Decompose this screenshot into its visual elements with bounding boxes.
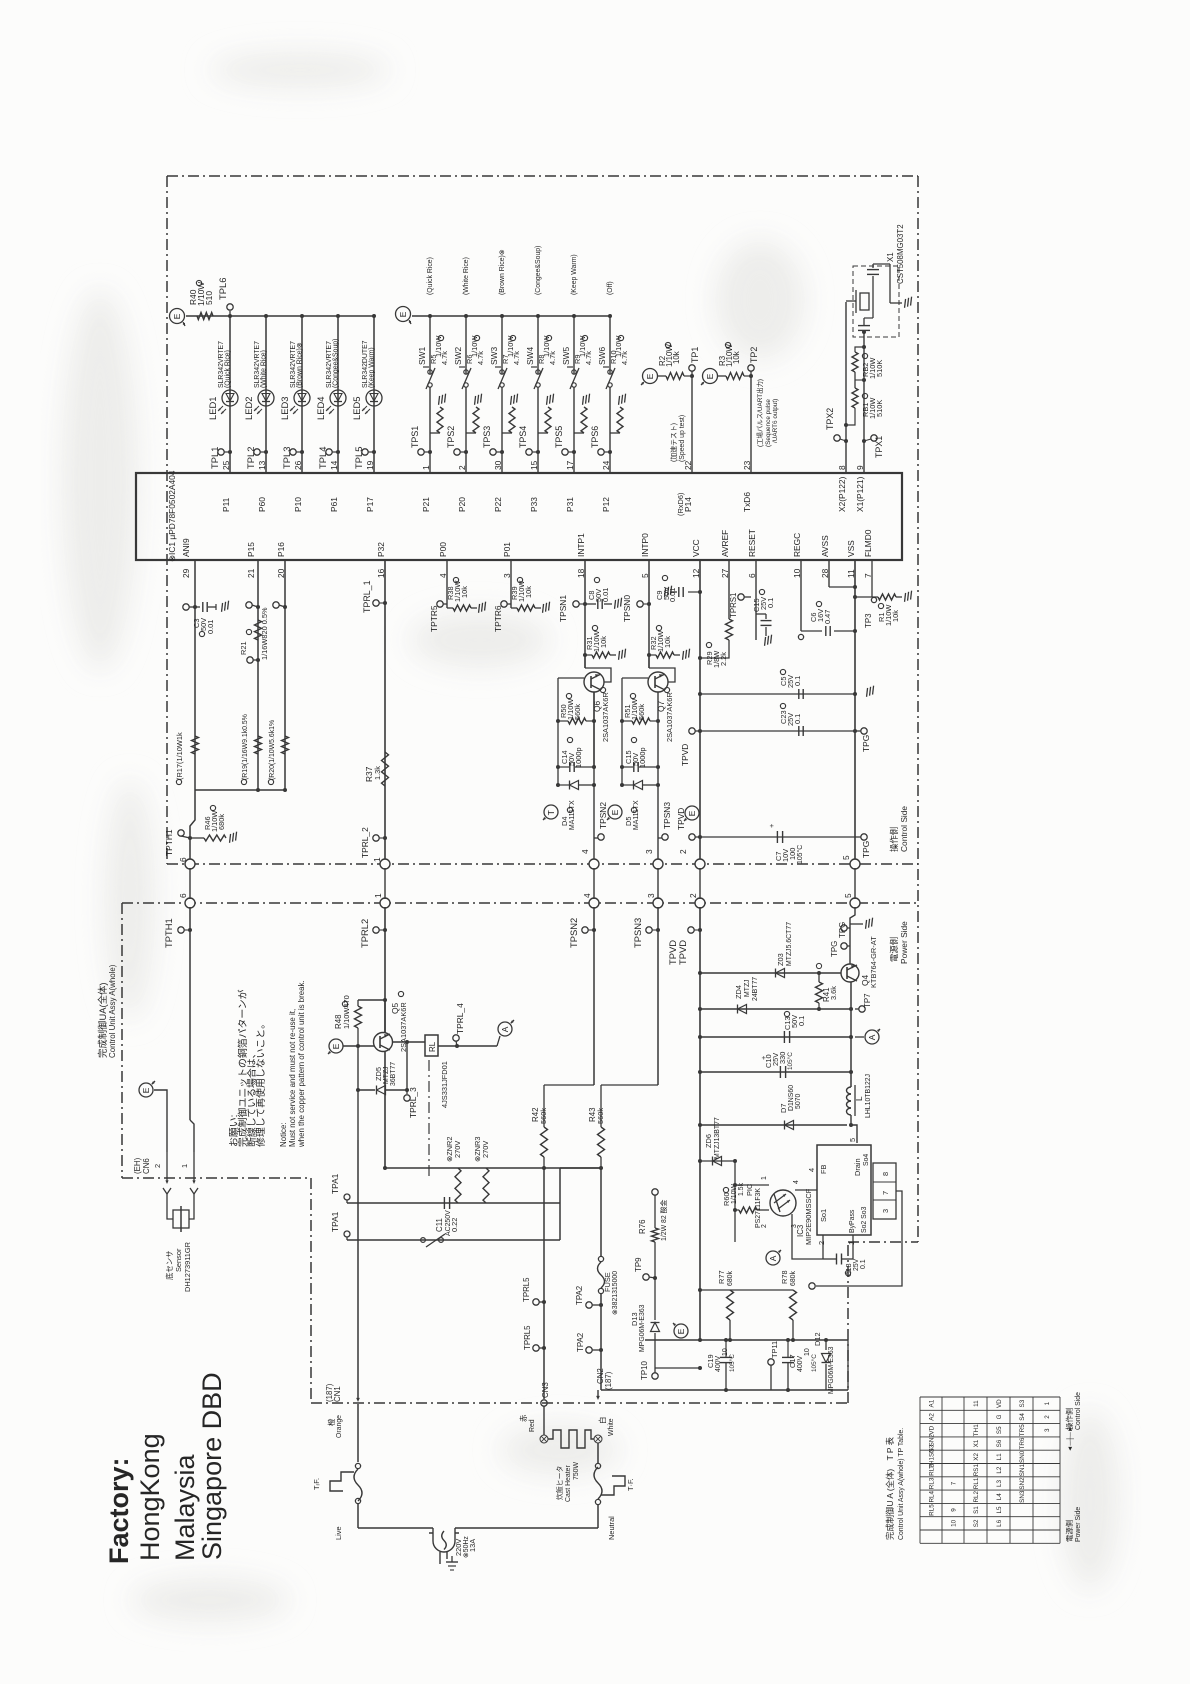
svg-text:TPS3: TPS3 — [482, 426, 492, 448]
svg-text:Neutral: Neutral — [607, 1516, 616, 1540]
wire: P16 column — [284, 560, 286, 790]
svg-text:R60: R60 — [722, 1192, 731, 1206]
svg-text:P61: P61 — [329, 497, 339, 512]
diode D4 MA111TX — [570, 781, 579, 790]
wire: sensor E wire — [154, 1090, 167, 1152]
svg-text:(R20(1/10W5.6k1%: (R20(1/10W5.6k1% — [269, 720, 276, 780]
svg-text:TP7: TP7 — [863, 994, 872, 1008]
wire: bottom mains wire — [358, 1527, 433, 1529]
table TP assignments — [920, 1396, 1060, 1398]
svg-text:P17: P17 — [365, 497, 375, 512]
resistor R37 1.3k — [382, 752, 389, 786]
switch SW2 — [464, 370, 468, 374]
svg-text:Drain: Drain — [853, 1158, 862, 1176]
heater cast heater 750W — [548, 1430, 594, 1448]
wire: LED1 column — [229, 316, 231, 473]
svg-text:S5: S5 — [996, 1426, 1003, 1434]
test point TPL1 — [218, 449, 224, 455]
svg-text:2SA1037AK6R: 2SA1037AK6R — [665, 692, 674, 742]
wire: interconnect 2 — [699, 868, 701, 899]
svg-text:680k: 680k — [727, 1271, 734, 1286]
node junction 5 on control frame — [850, 859, 860, 869]
node junction 1 on control frame — [380, 859, 390, 869]
svg-text:1: 1 — [761, 1176, 768, 1180]
svg-text:E: E — [141, 1087, 151, 1093]
svg-text:TPS6: TPS6 — [590, 426, 600, 448]
test point TPVD upper — [689, 728, 695, 734]
test point TPRL1 — [373, 600, 379, 606]
svg-text:560k: 560k — [539, 1108, 548, 1124]
capacitor C7 10V 100 105C rail — [700, 836, 855, 838]
svg-text:/UART6 output): /UART6 output) — [772, 399, 779, 443]
svg-text:2: 2 — [1044, 1415, 1051, 1419]
svg-text:Control Side: Control Side — [1075, 1392, 1082, 1430]
svg-text:T: T — [546, 810, 556, 815]
svg-text:(工場パルス/UART出力): (工場パルス/UART出力) — [755, 379, 764, 447]
test point TPSN2 power side — [593, 907, 595, 1085]
test point TPRL2 control side — [373, 835, 379, 841]
resistor R40 1/10W 510 — [197, 313, 213, 320]
svg-text:10k: 10k — [732, 351, 741, 364]
svg-text:24BT77: 24BT77 — [752, 977, 759, 1001]
svg-text:(Quick Rice): (Quick Rice) — [427, 257, 434, 295]
wire: left feed column lower — [699, 1339, 701, 1341]
svg-text:P12: P12 — [601, 497, 611, 512]
svg-text:TPRL5: TPRL5 — [522, 1277, 531, 1302]
node junction 4 on power frame — [589, 898, 599, 908]
svg-text:ANI9: ANI9 — [181, 538, 191, 557]
svg-text:9: 9 — [951, 1508, 958, 1512]
svg-text:3: 3 — [1044, 1428, 1051, 1432]
capacitor C18 25V 0.1 — [836, 1254, 838, 1265]
wire: LED2 column — [265, 316, 267, 473]
svg-text:R21: R21 — [239, 641, 248, 655]
svg-text:270V: 270V — [453, 1141, 462, 1158]
wire: LED3 column — [301, 316, 303, 473]
svg-text:2: 2 — [688, 893, 698, 898]
svg-text:C11: C11 — [435, 1218, 444, 1232]
svg-text:L4: L4 — [996, 1493, 1003, 1501]
svg-text:電源側: 電源側 — [889, 937, 899, 962]
svg-text:Power Side: Power Side — [1075, 1507, 1082, 1542]
svg-text:TPTH1: TPTH1 — [163, 918, 174, 948]
svg-text:TPA2: TPA2 — [576, 1333, 585, 1352]
svg-text:⊗IC1 μPD78F0502A404: ⊗IC1 μPD78F0502A404 — [167, 470, 177, 562]
wire: Q4 output column — [850, 982, 852, 1087]
wire: P15 column — [257, 560, 259, 790]
diode D7 D1NS60 — [785, 1121, 794, 1130]
svg-text:KTB764-GR-AT: KTB764-GR-AT — [869, 936, 878, 988]
test point TPTH1 control side — [178, 830, 184, 836]
wire: TPTR5 column — [446, 560, 448, 608]
wire: SW6 column — [609, 316, 611, 374]
node junction 2 on control frame — [695, 859, 705, 869]
svg-text:TPSN0: TPSN0 — [622, 595, 632, 622]
node junction 4 on control frame — [589, 859, 599, 869]
test point TP2 — [744, 375, 751, 377]
wire: vertical right power rail — [559, 1168, 561, 1240]
svg-text:D7: D7 — [779, 1104, 788, 1113]
svg-text:Power Side: Power Side — [899, 921, 909, 964]
node A: circled A at IC3 — [766, 1251, 780, 1265]
svg-text:S2: S2 — [973, 1519, 980, 1527]
svg-text:TP3: TP3 — [864, 613, 873, 628]
svg-text:RL4: RL4 — [929, 1490, 936, 1502]
svg-text:TPX1: TPX1 — [874, 436, 884, 458]
svg-text:0.1: 0.1 — [793, 676, 802, 686]
wire: X1 pin to crystal — [863, 332, 865, 473]
svg-text:MTZJ13BT77: MTZJ13BT77 — [714, 1117, 721, 1159]
svg-text:MIP2E90MSSCF: MIP2E90MSSCF — [804, 1188, 813, 1245]
capacitor C3 50V 0.01 with ground — [195, 606, 200, 608]
switch SW4 — [536, 370, 540, 374]
svg-text:Z03: Z03 — [776, 953, 785, 966]
node junction 6 on control frame — [185, 859, 195, 869]
svg-text:L6: L6 — [996, 1519, 1003, 1527]
diode D13 MPG06M-E363 — [654, 1278, 656, 1320]
wire: opto pin3 down — [792, 1214, 823, 1259]
test point TPRL4 — [438, 1045, 497, 1047]
svg-text:(Congee&Soup): (Congee&Soup) — [535, 246, 542, 295]
svg-text:Factory:: Factory: — [104, 1457, 134, 1564]
svg-text:A2: A2 — [929, 1413, 936, 1421]
svg-text:TP11: TP11 — [770, 1341, 779, 1358]
svg-text:3: 3 — [646, 893, 656, 898]
heater terminal right — [594, 1435, 602, 1443]
svg-text:0.1: 0.1 — [793, 714, 802, 724]
node E: circled E TPVD lower — [685, 806, 699, 820]
svg-text:P01: P01 — [502, 542, 512, 557]
svg-text:P31: P31 — [565, 497, 575, 512]
node E: circled E for R3 — [703, 369, 718, 384]
test point TP7 — [859, 1006, 865, 1012]
svg-text:MTZJ: MTZJ — [383, 1066, 390, 1084]
capacitor crystal load bottom — [858, 325, 870, 327]
svg-text:RL5: RL5 — [929, 1504, 936, 1516]
svg-text:when the copper pattern of con: when the copper pattern of control unit … — [297, 980, 306, 1148]
svg-text:電源側: 電源側 — [1065, 1520, 1074, 1542]
test point TPA1 lower — [344, 1231, 350, 1237]
svg-text:0.47: 0.47 — [823, 610, 832, 624]
wire: RESET column — [755, 560, 757, 640]
svg-text:SW1: SW1 — [417, 347, 427, 365]
svg-text:2SA1037AK6R: 2SA1037AK6R — [601, 692, 610, 742]
node junction 2 on power frame — [695, 898, 705, 908]
svg-text:3: 3 — [644, 849, 654, 854]
svg-text:VCC: VCC — [691, 539, 701, 557]
svg-text:FB: FB — [819, 1164, 828, 1174]
svg-text:1/2W 82 酸金: 1/2W 82 酸金 — [659, 1200, 668, 1241]
svg-text:PIC: PIC — [745, 1183, 754, 1196]
svg-text:4.7k: 4.7k — [584, 351, 593, 365]
resistor R1 1/10W 10k with ground and TP3 — [855, 596, 878, 598]
svg-text:(Sequence pulse: (Sequence pulse — [765, 399, 772, 447]
svg-text:E: E — [172, 313, 182, 319]
svg-text:220V: 220V — [454, 1539, 463, 1556]
svg-text:橙: 橙 — [327, 1418, 336, 1426]
svg-text:LED1: LED1 — [207, 397, 218, 420]
resistor R17 1/10W 1k — [192, 736, 199, 754]
resistor R8 1/10W 4.7k with ground — [538, 432, 548, 434]
wire: ZD6 row — [700, 1160, 735, 1162]
svg-text:R77: R77 — [717, 1270, 726, 1284]
test point TP10 — [652, 1373, 658, 1379]
svg-text:SN0: SN0 — [1019, 1450, 1026, 1463]
wire: INTP1 column — [584, 560, 586, 668]
svg-text:SW6: SW6 — [597, 347, 607, 365]
svg-text:MPG06M-E363: MPG06M-E363 — [639, 1304, 646, 1352]
svg-text:0.1: 0.1 — [766, 598, 775, 608]
svg-text:4.7k: 4.7k — [548, 351, 557, 365]
svg-text:680k: 680k — [790, 1271, 797, 1286]
wire: analog bottom rail — [195, 789, 285, 791]
wire: left branch continues down — [357, 1090, 359, 1140]
svg-text:MTZJ5.6CT77: MTZJ5.6CT77 — [786, 922, 793, 966]
svg-text:REGC: REGC — [792, 533, 802, 557]
svg-text:修理して再使用しないこと。: 修理して再使用しないこと。 — [254, 1019, 267, 1147]
svg-text:2: 2 — [153, 1164, 162, 1168]
svg-text:13A: 13A — [468, 1539, 477, 1552]
svg-text:TP9: TP9 — [634, 1257, 643, 1272]
node E: circled E at D5 — [608, 805, 622, 819]
svg-text:RESET: RESET — [747, 529, 757, 557]
svg-text:TR6: TR6 — [1019, 1437, 1026, 1449]
resistor R77 680k — [700, 1289, 730, 1291]
svg-text:7: 7 — [951, 1481, 958, 1485]
wire: Q5 emitter row to RL — [392, 1041, 425, 1043]
svg-text:L2: L2 — [996, 1466, 1003, 1474]
svg-text:Sensor: Sensor — [174, 1248, 183, 1272]
svg-text:P60: P60 — [257, 497, 267, 512]
svg-text:E: E — [398, 311, 408, 317]
svg-text:(Brown Rice)⊗: (Brown Rice)⊗ — [499, 249, 506, 295]
svg-text:TPVD: TPVD — [680, 744, 690, 766]
svg-text:510K: 510K — [875, 400, 884, 417]
svg-text:ZD5: ZD5 — [374, 1067, 383, 1081]
svg-text:RL2: RL2 — [929, 1464, 936, 1476]
fuse FUSE 3821315000 — [598, 1256, 603, 1261]
svg-text:(EH): (EH) — [133, 1157, 142, 1174]
svg-text:So2 So3: So2 So3 — [861, 1206, 868, 1233]
svg-text:TPL4: TPL4 — [317, 447, 328, 469]
svg-text:3.6k: 3.6k — [829, 986, 838, 1000]
thermal fuse T.F. right — [595, 1499, 600, 1504]
capacitor C14 50V 1000p — [558, 766, 566, 768]
svg-text:SW5: SW5 — [561, 347, 571, 365]
svg-text:D12: D12 — [813, 1332, 822, 1346]
test point TPS3 — [490, 449, 496, 455]
svg-text:1000p: 1000p — [574, 747, 583, 768]
svg-text:TP10: TP10 — [640, 1361, 649, 1380]
wire: INTP0 column — [648, 560, 650, 668]
ground at Q4 emitter — [850, 923, 863, 925]
svg-text:(加速テスト): (加速テスト) — [669, 423, 678, 462]
svg-text:⊗3821315000: ⊗3821315000 — [612, 1271, 619, 1315]
svg-text:0.22: 0.22 — [450, 1218, 459, 1232]
wire: interconnect 5 — [854, 868, 856, 899]
svg-text:炊飯ヒータ: 炊飯ヒータ — [555, 1465, 564, 1500]
svg-text:P10: P10 — [293, 497, 303, 512]
svg-text:0.1: 0.1 — [860, 1259, 867, 1269]
svg-text:25V: 25V — [853, 1258, 860, 1271]
svg-text:100: 100 — [788, 848, 797, 860]
resistor R39 1/10W 10k with ground — [511, 607, 517, 609]
svg-text:(Keep Warm): (Keep Warm) — [571, 254, 578, 295]
node E: circled E feeding switch bus — [396, 307, 411, 322]
test point on P15 line upper — [246, 602, 252, 608]
test point TPA2 lower — [586, 1347, 592, 1353]
svg-text:TPG: TPG — [838, 922, 847, 938]
svg-text:(187): (187) — [604, 1371, 613, 1390]
svg-text:(Keep Warm): (Keep Warm) — [369, 347, 376, 388]
svg-text:1.3k: 1.3k — [373, 766, 382, 780]
svg-text:TᵣF.: TᵣF. — [312, 1478, 321, 1490]
svg-text:TPTR5: TPTR5 — [429, 605, 439, 632]
resistor R51 1/10W 560k — [622, 720, 632, 722]
svg-text:4.7k: 4.7k — [440, 351, 449, 365]
capacitor C6 16V 0.47 — [801, 630, 822, 632]
test point TPRL3 — [404, 1095, 410, 1101]
svg-text:MA111TX: MA111TX — [633, 800, 640, 830]
resistor R41 3.6k — [816, 982, 823, 1003]
svg-text:10k: 10k — [663, 636, 672, 648]
svg-text:TP1: TP1 — [690, 347, 700, 363]
svg-text:完成制御U A (全体) T P 表: 完成制御U A (全体) T P 表 — [885, 1436, 895, 1540]
svg-text:CN1: CN1 — [333, 1386, 342, 1402]
svg-text:(Speed up test): (Speed up test) — [679, 415, 686, 462]
svg-text:SW2: SW2 — [453, 347, 463, 365]
svg-text:1/16W820 0.5%: 1/16W820 0.5% — [260, 607, 269, 660]
svg-text:FUSE: FUSE — [603, 1272, 612, 1292]
inductor L LHL10TB122J vertical — [847, 1087, 852, 1115]
svg-text:(Quick Rice): (Quick Rice) — [225, 350, 232, 388]
wire: crystal ground rail — [889, 264, 891, 303]
diode D5 MA111TX — [634, 781, 643, 790]
test point TPA2 upper — [586, 1302, 592, 1308]
wire: power-side frame (dash-dot border) — [122, 902, 918, 904]
wire: ZD5 branch verticals — [357, 1046, 359, 1090]
test point TPRL5 lower — [533, 1345, 539, 1351]
svg-text:T·F.: T·F. — [626, 1478, 635, 1491]
svg-text:L1: L1 — [996, 1453, 1003, 1461]
svg-text:ZD4: ZD4 — [734, 985, 743, 999]
capacitor C17 400V 10 105C — [782, 1356, 794, 1358]
svg-text:R76: R76 — [638, 1219, 647, 1234]
svg-text:RL2: RL2 — [973, 1490, 980, 1502]
wire: P32 / TPRL column — [384, 560, 386, 864]
capacitor C15 50V 1000p — [633, 762, 635, 772]
test point TPS5 — [562, 449, 568, 455]
varistor ZNR2 270V — [455, 1168, 461, 1203]
svg-text:(R19(1/16W9.1k0.5%: (R19(1/16W9.1k0.5% — [242, 714, 249, 780]
diode ZD3 MTZJ5.6CT77 — [776, 969, 785, 978]
svg-text:7: 7 — [881, 1191, 890, 1195]
svg-text:4.7k: 4.7k — [476, 351, 485, 365]
svg-text:1/10W470: 1/10W470 — [342, 995, 351, 1029]
wire: LED anode bus — [186, 315, 375, 317]
svg-text:E: E — [676, 1328, 686, 1334]
svg-text:TPL2: TPL2 — [245, 447, 256, 469]
capacitor C23 25V 0.1 rail — [700, 730, 855, 732]
wire: CN1 to thermal fuse — [357, 1404, 359, 1462]
wire: SW1 column — [429, 316, 431, 374]
svg-text:(White Rice): (White Rice) — [463, 257, 470, 295]
wire: left branch Q7 — [621, 678, 623, 785]
test point on ANI9 line — [183, 604, 189, 610]
wire: SW4 column — [537, 316, 539, 374]
resistor R43 560k — [600, 1085, 602, 1127]
test point TP11 — [768, 1359, 774, 1365]
svg-text:(White Rice): (White Rice) — [261, 350, 268, 388]
svg-text:So4: So4 — [863, 1154, 870, 1166]
svg-text:TPSN3: TPSN3 — [632, 918, 643, 948]
svg-text:R78: R78 — [780, 1270, 789, 1284]
wire: row C11 — [347, 1202, 560, 1204]
resistor R48 1/10W 470 — [358, 999, 385, 1001]
svg-text:3: 3 — [881, 1209, 890, 1213]
svg-text:TPL5: TPL5 — [353, 447, 364, 469]
resistor R32 1/10W 10k with ground — [649, 654, 656, 656]
svg-text:TPVD: TPVD — [677, 940, 688, 965]
svg-text:底センサ: 底センサ — [165, 1250, 174, 1280]
wire: REGC column — [800, 560, 802, 631]
svg-text:11: 11 — [973, 1400, 980, 1407]
wire: CN2 column lower — [600, 1294, 602, 1390]
node junction 3 on power frame — [653, 898, 663, 908]
node A: circled A at Q4 rail — [865, 1030, 879, 1044]
svg-text:TPG: TPG — [830, 941, 839, 957]
svg-text:SN1: SN1 — [1019, 1464, 1026, 1477]
resistor R3 1/10W 10k — [718, 375, 726, 377]
wire: interconnect 3 — [657, 868, 659, 899]
wire: X2 pin to crystal — [845, 302, 847, 473]
svg-text:TR5: TR5 — [1019, 1424, 1026, 1436]
svg-text:LHL10TB122J: LHL10TB122J — [865, 1074, 872, 1118]
svg-text:4: 4 — [807, 1168, 816, 1172]
svg-text:TPRL_4: TPRL_4 — [455, 1003, 465, 1034]
svg-text:29: 29 — [181, 568, 191, 578]
LED LED5 SLR342DUTE7 (Keep Warm) — [366, 390, 382, 406]
svg-text:TP2: TP2 — [749, 347, 759, 363]
svg-text:TPA1: TPA1 — [330, 1173, 340, 1194]
svg-text:X1: X1 — [886, 252, 895, 262]
svg-text:Red: Red — [529, 1419, 536, 1432]
svg-text:Control Side: Control Side — [899, 806, 909, 852]
svg-text:(Off): (Off) — [607, 281, 614, 295]
wire: opto pin1 stub — [735, 1184, 769, 1186]
svg-text:5: 5 — [848, 1138, 857, 1142]
node E: circled E for R2 — [643, 369, 658, 384]
svg-text:TH1: TH1 — [973, 1424, 980, 1436]
capacitor C13 50V 0.1 — [783, 1031, 785, 1043]
svg-text:(Congee&Soup): (Congee&Soup) — [333, 339, 340, 388]
capacitor C19 400V 10 105C — [720, 1356, 732, 1358]
svg-text:TPA2: TPA2 — [575, 1286, 584, 1305]
crystal resonator symbol — [860, 293, 869, 310]
switch SW3 — [500, 370, 504, 374]
svg-text:P16: P16 — [276, 542, 286, 557]
svg-text:HongKong: HongKong — [135, 1433, 165, 1561]
test point TPTR6 — [501, 601, 507, 607]
optocoupler PC PS27111F3K — [770, 1190, 796, 1216]
svg-text:操作側: 操作側 — [1065, 1408, 1074, 1430]
LED LED1 SLR342VRTE7 (Quick Rice) — [222, 390, 238, 406]
svg-text:TPL3: TPL3 — [281, 447, 292, 469]
LED LED3 SLR342VRTE7 (Brown Rice) — [294, 390, 310, 406]
svg-text:INTP1: INTP1 — [576, 533, 586, 557]
svg-text:X2(P122): X2(P122) — [837, 476, 847, 512]
svg-text:RL: RL — [428, 1041, 437, 1052]
